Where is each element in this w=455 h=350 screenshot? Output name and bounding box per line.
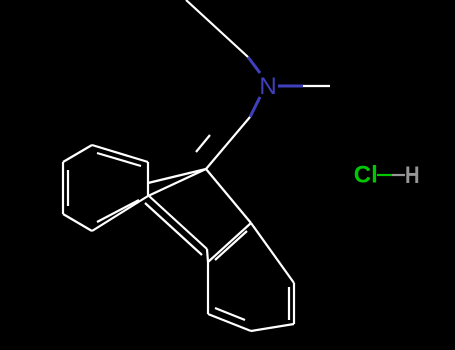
bond C1-C2 chain top run xyxy=(186,0,248,57)
double bond C5=CH inner line xyxy=(196,135,210,152)
right benzo ring edge C8-C9 xyxy=(208,314,251,331)
left benzo ring inner double bond left edge xyxy=(67,170,69,206)
bond C10-C9a stub xyxy=(207,249,208,262)
bond N-C3 blue segment xyxy=(250,97,260,117)
bond N-CH3 white half xyxy=(303,85,330,87)
left benzo ring edge C4a-C11a xyxy=(147,162,149,196)
right benzo ring edge C7-C8 xyxy=(251,324,294,331)
right benzo ring edge C6-C7 xyxy=(293,283,295,324)
bond N-CH3 blue half xyxy=(278,85,303,88)
bond C2-N blue segment xyxy=(248,57,260,73)
right benzo ring inner double bond top-left edge xyxy=(215,231,247,260)
svg-text:N: N xyxy=(259,73,276,100)
right benzo ring inner double bond right edge xyxy=(288,287,290,320)
left benzo ring inner double bond top edge xyxy=(97,153,141,166)
right benzo ring edge C9a-C5a xyxy=(208,223,251,262)
bond C5-C4a shallow xyxy=(148,169,206,183)
left benzo ring edge C4L-C4a xyxy=(92,145,148,162)
left benzo ring edge C1-C2L xyxy=(63,214,92,231)
left benzo ring inner double bond bottom edge xyxy=(97,200,139,222)
bond C5-C11a steep xyxy=(148,169,206,196)
svg-text:Cl: Cl xyxy=(354,162,378,189)
right benzo ring inner double bond bottom edge xyxy=(215,308,245,320)
svg-text:H: H xyxy=(405,161,420,188)
bridge bond C11-C10 xyxy=(149,196,207,249)
left benzo ring edge C3L-C4L xyxy=(63,145,92,162)
left benzo ring edge C2L-C3L xyxy=(62,162,64,214)
right benzo ring edge C9-C9a xyxy=(207,262,209,314)
bond C3-C5 chain to ring apex xyxy=(206,117,250,169)
bond C5-C5a xyxy=(206,169,251,223)
left benzo ring edge C11a-C1 xyxy=(92,196,148,231)
bridge double bond C10=C11 inner line xyxy=(145,203,202,255)
HCl bond green half xyxy=(377,174,392,176)
right benzo ring edge C5a-C6 xyxy=(251,223,294,283)
HCl bond gray half xyxy=(392,174,405,176)
